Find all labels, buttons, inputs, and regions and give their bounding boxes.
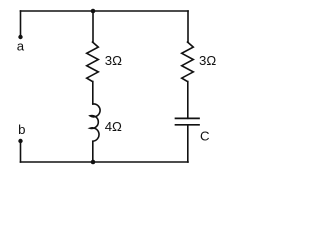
inductor 4ohm <box>90 104 100 141</box>
wire top rail <box>21 10 189 12</box>
terminal b dot <box>18 139 22 143</box>
node junction top <box>91 9 96 14</box>
wire middle branch upper <box>92 11 94 42</box>
wire bottom rail <box>21 161 189 163</box>
svg-text:b: b <box>18 122 25 137</box>
capacitor C bottom plate <box>176 124 200 126</box>
capacitor C top plate <box>176 117 200 119</box>
svg-text:C: C <box>200 129 210 144</box>
resistor 3ohm right <box>182 42 194 82</box>
svg-text:a: a <box>17 39 25 54</box>
wire middle branch mid <box>92 82 94 105</box>
svg-text:4Ω: 4Ω <box>105 119 122 134</box>
resistor 3ohm middle <box>87 42 99 82</box>
wire right branch lower <box>187 125 189 162</box>
wire right branch upper <box>187 11 189 42</box>
wire terminal a stub <box>20 11 22 37</box>
node junction bottom <box>91 160 96 165</box>
wire middle branch lower <box>92 141 94 162</box>
terminal a dot <box>18 35 22 39</box>
svg-text:3Ω: 3Ω <box>105 53 122 68</box>
svg-text:3Ω: 3Ω <box>199 53 216 68</box>
wire right branch mid <box>187 82 189 119</box>
wire terminal b stub <box>20 141 22 162</box>
